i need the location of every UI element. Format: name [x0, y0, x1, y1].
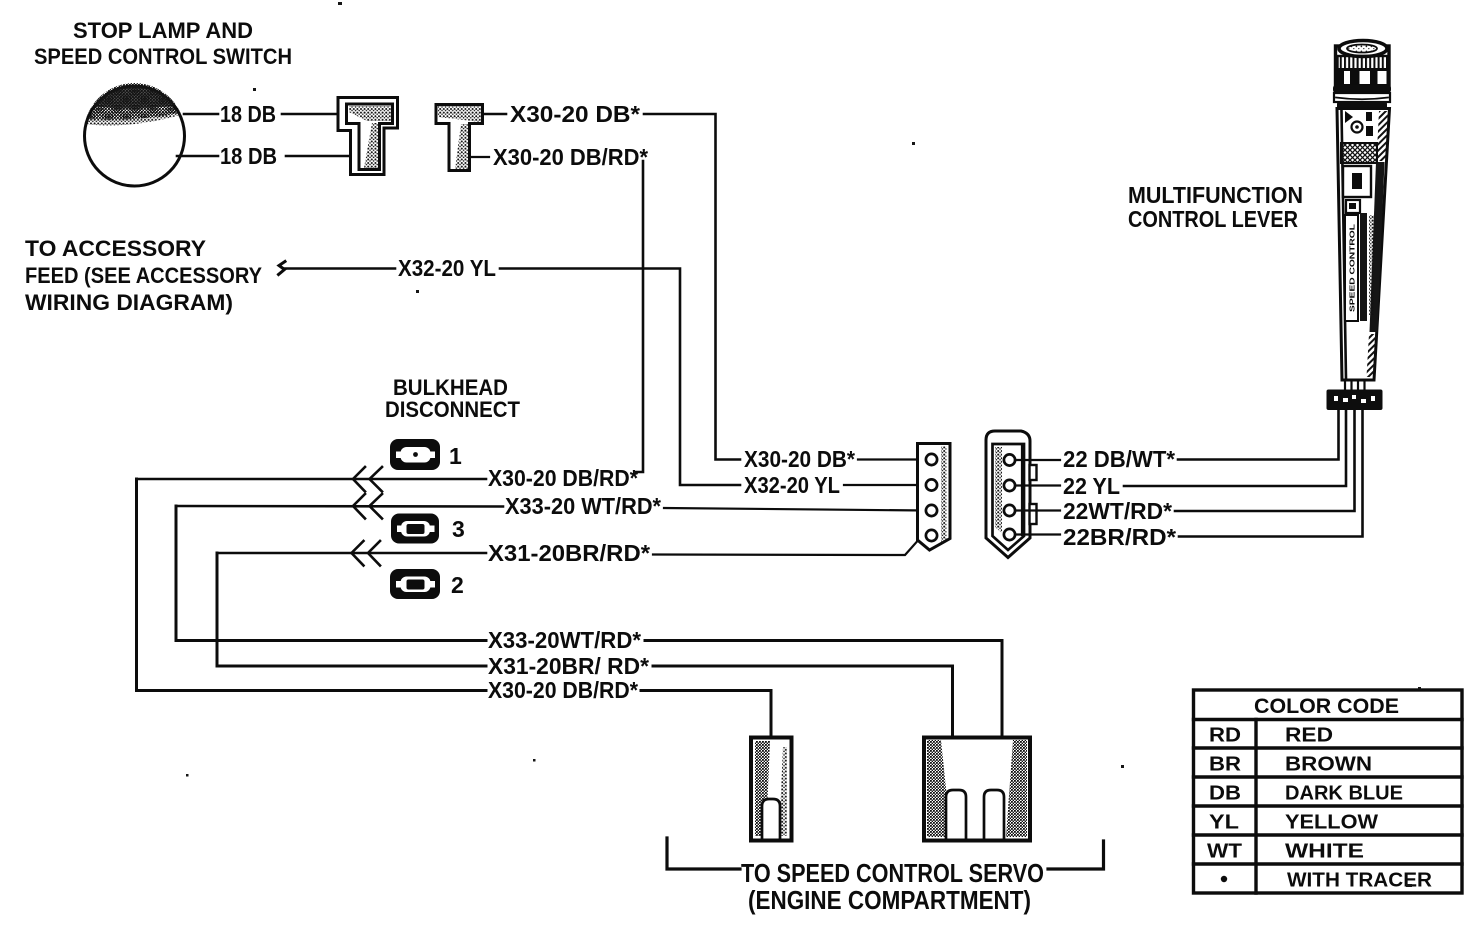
svg-text:1: 1 — [449, 443, 462, 469]
svg-text:(ENGINE COMPARTMENT): (ENGINE COMPARTMENT) — [748, 885, 1031, 915]
wire row 2 to connector A pin 3 — [664, 508, 925, 511]
lever wire stubs — [1345, 380, 1365, 391]
wire bulkhead left vertical 2 — [176, 506, 486, 641]
lever switch band — [1337, 70, 1388, 86]
wire connector B pin 1 to label 22 DB/WT* — [1015, 459, 1060, 461]
svg-text:WHITE: WHITE — [1285, 841, 1364, 863]
wire 18 DB lower — [177, 155, 352, 158]
wire label to connector A pin 1 — [858, 458, 926, 460]
lever body — [1337, 109, 1390, 381]
servo connector two-pin — [924, 738, 1030, 841]
svg-text:TO SPEED CONTROL SERVO: TO SPEED CONTROL SERVO — [741, 858, 1044, 888]
svg-text:X30-20 DB*: X30-20 DB* — [510, 101, 640, 127]
svg-text:X30-20 DB/RD*: X30-20 DB/RD* — [488, 465, 638, 491]
svg-text:BR: BR — [1209, 754, 1242, 776]
wire X30-20 DB/RD* vertical down to bulkhead row 1 — [636, 161, 643, 472]
lever collar — [1333, 85, 1391, 102]
wire 22 YL to lever — [1124, 408, 1346, 486]
servo connector single-pin — [751, 738, 792, 841]
connector T2 (harness terminal) — [436, 105, 483, 171]
wire bulkhead row 3 — [217, 552, 486, 555]
connector B (4-way to lever) — [986, 431, 1037, 558]
bracket to speed control servo — [667, 838, 740, 869]
wire 22 DB/WT* to lever — [1178, 408, 1339, 460]
lever upper panel marks — [1345, 111, 1373, 136]
bulkhead connector 1 — [390, 439, 440, 470]
title: bulkhead disconnect — [385, 375, 521, 422]
svg-text:BROWN: BROWN — [1285, 754, 1372, 776]
svg-text:X33-20 WT/RD*: X33-20 WT/RD* — [505, 493, 661, 519]
wire connector B pin 4 to label 22BR/RD* — [1015, 533, 1060, 535]
wire 22WT/RD* to lever — [1175, 408, 1355, 511]
title: stop lamp and speed control switch — [34, 18, 292, 69]
wire label to connector A pin 2 — [844, 484, 926, 486]
svg-text:2: 2 — [451, 572, 464, 598]
svg-text:X30-20 DB*: X30-20 DB* — [744, 446, 855, 472]
wire X30-20 DB* down to connector row — [644, 114, 740, 460]
svg-text:22 YL: 22 YL — [1063, 473, 1120, 499]
wire bottom row A to servo connector — [645, 641, 1002, 740]
wire bulkhead left vertical 1 — [137, 479, 487, 691]
wire connector B pin 2 to label 22 YL — [1015, 484, 1060, 486]
wire T2 to X30-20 DB* label — [484, 113, 506, 116]
svg-text:X31-20BR/RD*: X31-20BR/RD* — [488, 540, 650, 566]
lever cable clamp — [1327, 390, 1383, 411]
wire 18 DB upper — [184, 113, 339, 116]
svg-text:22BR/RD*: 22BR/RD* — [1063, 524, 1176, 550]
svg-text:DB: DB — [1209, 783, 1241, 805]
svg-text:SPEED CONTROL SWITCH: SPEED CONTROL SWITCH — [34, 44, 292, 69]
bulkhead connector 3 — [391, 514, 439, 544]
scan specks — [186, 2, 1421, 887]
svg-text:X33-20WT/RD*: X33-20WT/RD* — [488, 627, 641, 653]
wire bulkhead row 1 — [137, 478, 487, 481]
svg-text:WITH TRACER: WITH TRACER — [1287, 870, 1433, 892]
wire row 3 to connector A pin 4 — [653, 542, 917, 556]
connector A (4-way) — [918, 444, 951, 551]
svg-text:X32-20 YL: X32-20 YL — [744, 472, 840, 498]
svg-text:X31-20BR/ RD*: X31-20BR/ RD* — [488, 653, 649, 679]
svg-text:22WT/RD*: 22WT/RD* — [1063, 498, 1172, 524]
bulkhead connector 2 — [390, 569, 440, 599]
svg-text:MULTIFUNCTION: MULTIFUNCTION — [1128, 182, 1303, 208]
lever mid panel — [1343, 166, 1371, 197]
svg-text:WT: WT — [1207, 841, 1242, 863]
wire 22BR/RD* to lever — [1179, 408, 1363, 537]
svg-text:STOP LAMP AND: STOP LAMP AND — [73, 18, 253, 43]
lever speed control text strip — [1345, 213, 1374, 321]
wire bulkhead row 2 — [176, 505, 503, 508]
lever neck — [1337, 102, 1387, 110]
svg-text:RED: RED — [1285, 725, 1333, 747]
wire bottom row B to servo connector — [653, 666, 953, 739]
svg-text:X30-20 DB/RD*: X30-20 DB/RD* — [488, 677, 638, 703]
lever small box — [1346, 200, 1360, 213]
svg-text:FEED (SEE ACCESSORY: FEED (SEE ACCESSORY — [25, 263, 262, 288]
wire T2 stem to X30-20 DB/RD* label — [471, 156, 489, 158]
disconnect chevrons row 1 — [353, 467, 382, 492]
wire bulkhead left vertical 3 — [217, 553, 486, 666]
svg-text:X30-20 DB/RD*: X30-20 DB/RD* — [493, 144, 648, 170]
wire X32-20 YL down to connector row — [500, 269, 740, 486]
svg-text:DISCONNECT: DISCONNECT — [385, 397, 521, 422]
svg-text:TO ACCESSORY: TO ACCESSORY — [25, 236, 206, 261]
svg-text:YL: YL — [1209, 812, 1239, 834]
svg-text:22 DB/WT*: 22 DB/WT* — [1063, 446, 1175, 472]
note: to accessory feed — [25, 236, 262, 315]
wire X32-20 YL — [284, 267, 395, 270]
svg-text:SPEED CONTROL: SPEED CONTROL — [1348, 223, 1357, 312]
wire connector B pin 3 to label 22WT/RD* — [1015, 509, 1060, 511]
wire bottom row C to servo connector — [641, 691, 771, 740]
svg-text:X32-20 YL: X32-20 YL — [398, 255, 496, 281]
disconnect chevrons row 3 — [352, 541, 381, 566]
svg-text:CONTROL LEVER: CONTROL LEVER — [1128, 206, 1298, 232]
svg-text:RD: RD — [1209, 725, 1241, 747]
disconnect chevrons row 2 — [353, 494, 382, 519]
svg-text:DARK BLUE: DARK BLUE — [1285, 783, 1403, 805]
svg-text:18 DB: 18 DB — [220, 101, 276, 127]
connector T1 (switch terminal, double outline) — [338, 98, 398, 175]
table row * WITH TRACER — [1221, 876, 1227, 882]
svg-text:YELLOW: YELLOW — [1285, 812, 1378, 834]
color code table — [1194, 690, 1463, 893]
svg-text:18 DB: 18 DB — [220, 143, 277, 169]
lever top cap — [1336, 41, 1390, 87]
title: multifunction control lever — [1128, 182, 1303, 232]
arrow to accessory feed — [279, 262, 286, 275]
svg-text:WIRING DIAGRAM): WIRING DIAGRAM) — [25, 290, 233, 315]
svg-text:COLOR CODE: COLOR CODE — [1254, 695, 1399, 718]
svg-text:3: 3 — [452, 516, 465, 542]
switch knob ball — [85, 83, 185, 186]
lever crosshatch band — [1341, 143, 1377, 163]
